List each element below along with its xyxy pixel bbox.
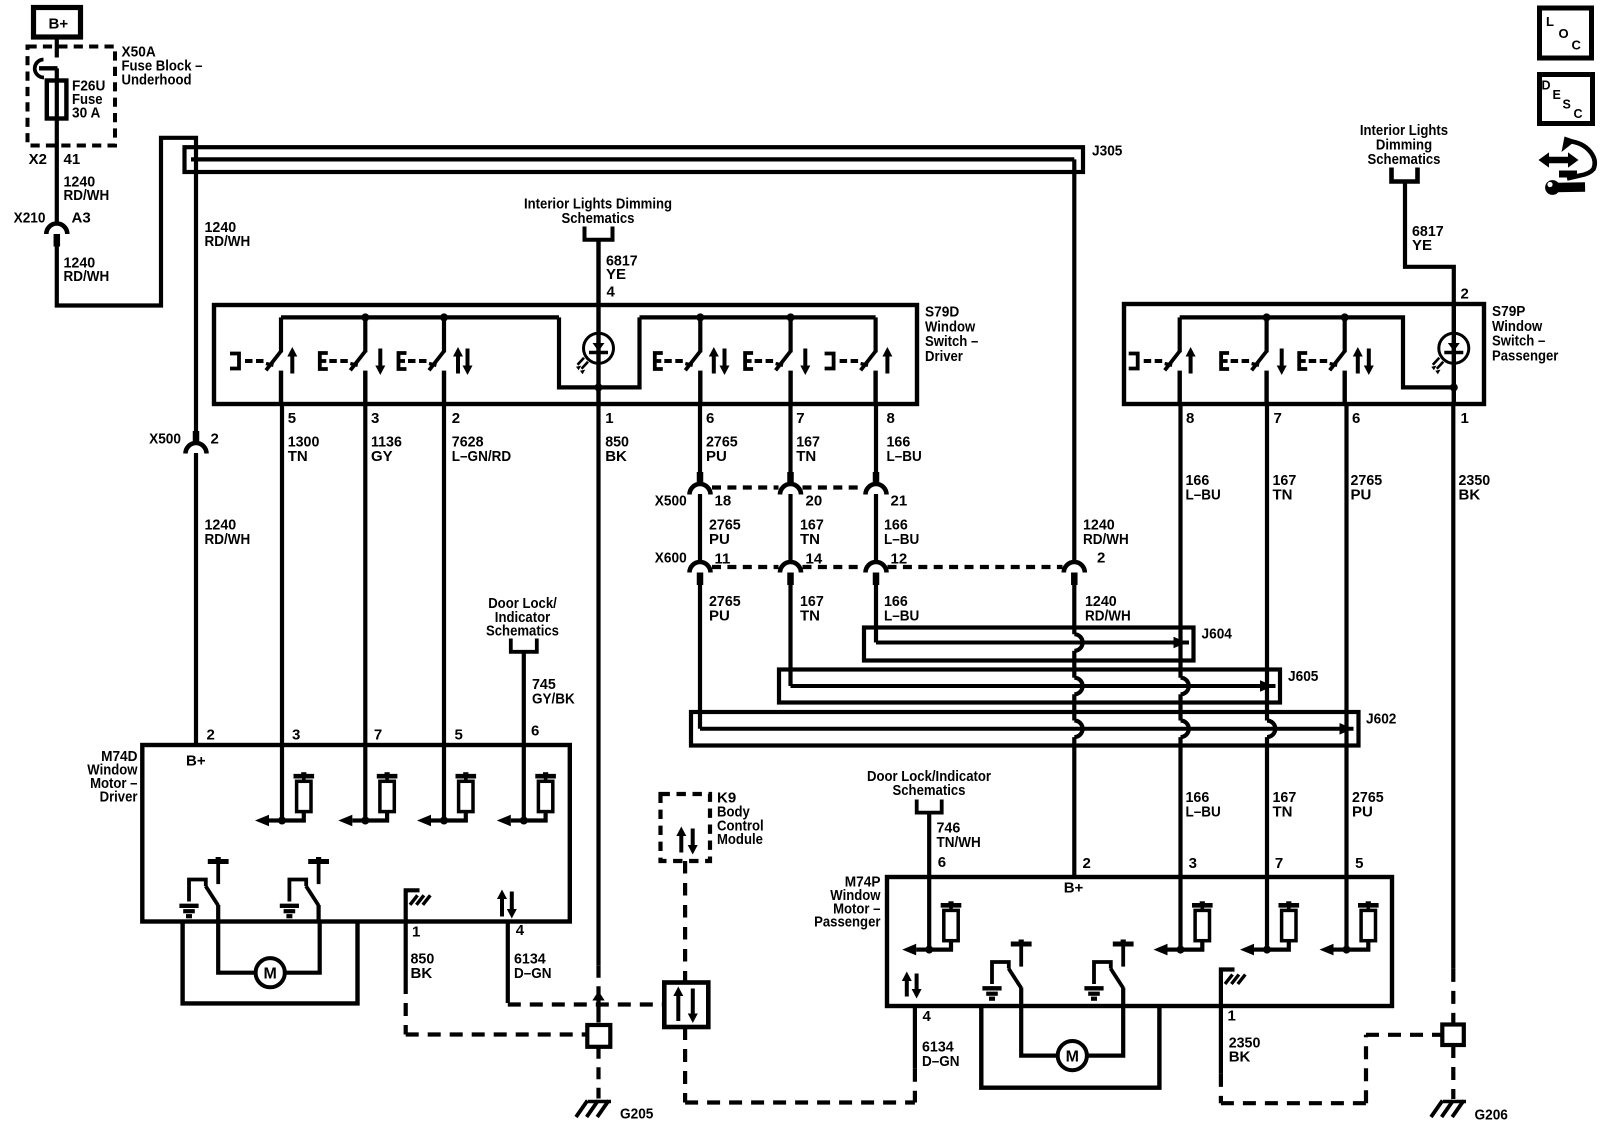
splice pack J602 outline: [691, 712, 1359, 746]
switch S79D window down sw (pin wire x=365.3): [320, 317, 386, 404]
svg-text:RD/WH: RD/WH: [205, 531, 251, 548]
M74D pin numbers: [207, 727, 463, 744]
M74P pin7 wire into box: [1265, 877, 1269, 950]
wire 2350 BK dashed to connector square: [1451, 969, 1455, 1025]
svg-text:11: 11: [715, 551, 731, 568]
svg-text:30 A: 30 A: [72, 105, 100, 122]
motor loop wire M74D: [183, 922, 358, 1004]
M74P pin4/pin1 numbers: [923, 1008, 1236, 1026]
label 850 BK (M74D pin1): [411, 951, 435, 982]
svg-text:J602: J602: [1366, 711, 1396, 728]
svg-text:RD/WH: RD/WH: [205, 233, 251, 250]
wire 6134 D-GN M74P pin4 (solid): [913, 1006, 917, 1069]
svg-text:TN: TN: [288, 448, 308, 465]
labels X500 terminal 2: [149, 431, 219, 448]
svg-text:7: 7: [796, 410, 804, 427]
S79D internal common bus: [281, 317, 876, 387]
label 746 TN/WH: [937, 820, 981, 851]
resistor M74P pin5 input network: [1320, 901, 1379, 955]
up/down arrows K9: [676, 827, 697, 855]
svg-text:YE: YE: [606, 266, 626, 283]
wire 2765 PU X500-18 to X600-11: [698, 494, 702, 562]
svg-text:5: 5: [1355, 855, 1363, 872]
label X50A Fuse Block - Underhood: [122, 44, 203, 89]
wire 746 TN/WH to M74P pin6: [927, 813, 931, 877]
wire 166 L-BU S79P pin8 to M74P pin3 (with hops): [1181, 404, 1189, 877]
wire 850 BK M74D pin1 dashed to ground connector: [406, 981, 586, 1035]
wire 1240 RD/WH X210 down and over to J305 riser: [57, 138, 196, 432]
svg-text:X210: X210: [14, 210, 46, 227]
wire 850 BK S79D pin1 down (solid): [596, 404, 600, 966]
svg-text:L–GN/RD: L–GN/RD: [452, 448, 511, 465]
dashed wire BCM connector to M74P pin4 run: [685, 1027, 915, 1103]
junction S79P bus at x=1266.6: [1263, 313, 1271, 321]
relay switch M74D motor up: [179, 857, 228, 922]
label K9 Body Control Module: [717, 790, 764, 849]
svg-text:L–BU: L–BU: [1186, 803, 1221, 820]
wire 1136 GY S79D pin3 to M74D pin7: [363, 404, 367, 745]
svg-text:L: L: [1546, 14, 1554, 29]
M74P pin6 wire into box: [927, 877, 931, 950]
ground elbow M74P pin1 internal: [1221, 970, 1245, 1007]
splice pack J602 internal conductor: [700, 727, 1354, 731]
inline connector square (G205 feed): [587, 1025, 610, 1047]
wire 167 TN X500-20 to X600-14: [788, 494, 792, 562]
wire 6134 D-GN M74P pin4 dashed: [913, 1069, 917, 1103]
label 166 L-BU (below X600): [884, 593, 919, 624]
wire 1300 TN S79D pin5 to M74D pin3: [280, 404, 284, 745]
label 1240 RD/WH (above X600-2): [1083, 517, 1129, 548]
svg-text:7: 7: [1275, 855, 1283, 872]
svg-text:4: 4: [516, 922, 525, 939]
junction S79D LED to common bus: [595, 383, 603, 391]
icon LOC box: [1540, 8, 1592, 58]
splice pack J604 internal conductor: [876, 641, 1189, 645]
label 166 L-BU (mid): [884, 517, 919, 548]
label M74P Window Motor - Passenger: [814, 874, 881, 931]
svg-text:J604: J604: [1202, 626, 1233, 643]
junction S79D bus at x=700.3: [696, 313, 704, 321]
relay switch M74P motor down: [1084, 940, 1133, 1007]
ground G205 symbol: [576, 1101, 611, 1118]
label 6134 D-GN (M74P pin4): [922, 1039, 960, 1070]
ground elbow M74D pin1 internal: [406, 890, 431, 921]
wire S79P pin2 through LED to pin 1: [1452, 305, 1456, 404]
wire 850 BK dashed above junction: [596, 966, 600, 994]
S79P pin numbers: [1186, 410, 1469, 427]
svg-text:21: 21: [891, 493, 908, 510]
label 166 L-BU (S79P pin8): [1186, 472, 1221, 503]
svg-text:RD/WH: RD/WH: [1083, 531, 1129, 548]
wire hook to fuse F26U: [55, 68, 59, 81]
junction S79P LED to common bus: [1450, 383, 1458, 391]
inline connector box with up/down arrows (BCM): [664, 983, 708, 1028]
M74D pin5 wire into box: [442, 745, 446, 821]
svg-text:3: 3: [1189, 855, 1197, 872]
svg-text:L–BU: L–BU: [887, 448, 922, 465]
label 2765 PU (mid): [709, 517, 741, 548]
svg-text:S: S: [1563, 98, 1571, 112]
motor assembly M74D box: [142, 745, 570, 922]
off-page reference Interior Lights Dimming Schematics (driver): [524, 196, 672, 240]
off-page reference Door Lock/Indicator Schematics (driver): [486, 595, 559, 652]
resistor M74D pin5 input network: [417, 772, 476, 826]
svg-text:G205: G205: [620, 1106, 653, 1123]
svg-text:6: 6: [938, 854, 946, 871]
svg-text:2: 2: [452, 410, 460, 427]
junction S79D bus at x=790.6: [787, 313, 795, 321]
wire 2765 PU S79P pin6 to M74P pin5: [1344, 404, 1348, 877]
pin 4 label S79D: [607, 284, 616, 301]
pin 6 label M74D: [531, 723, 539, 740]
svg-text:5: 5: [288, 410, 296, 427]
svg-text:X600: X600: [655, 550, 687, 567]
resistor M74P pin3 input network: [1154, 901, 1213, 955]
bus-bar hook symbol in fuse block: [35, 60, 58, 78]
svg-text:BK: BK: [411, 965, 433, 982]
label 2765 PU (lower): [1352, 789, 1384, 820]
svg-text:X2: X2: [29, 151, 47, 168]
svg-text:G206: G206: [1475, 1107, 1508, 1124]
connector X2 terminal 41 labels: [29, 151, 81, 168]
svg-text:12: 12: [891, 551, 908, 568]
connector X500 terminal 21: [866, 472, 887, 495]
resistor M74D pin6 input network: [497, 772, 556, 826]
wire 1240 RD/WH X600-2 to M74P pin2 (with hops): [1074, 575, 1082, 877]
wire 167 TN S79D pin7 to X500-20: [788, 404, 792, 473]
label 6817 YE (passenger): [1412, 223, 1444, 254]
svg-text:BK: BK: [1229, 1049, 1251, 1066]
switch S79D pass down sw (pin wire x=790.6): [745, 317, 810, 404]
labels X500 row: [655, 493, 907, 510]
svg-text:TN: TN: [1273, 486, 1293, 503]
relay switch M74P motor up: [982, 940, 1031, 1007]
label B+ (M74D pin2): [186, 753, 206, 770]
wire 6817 YE to S79D pin 4: [596, 240, 600, 305]
svg-text:J305: J305: [1092, 143, 1122, 160]
svg-text:L–BU: L–BU: [884, 531, 919, 548]
svg-text:18: 18: [715, 493, 732, 510]
label 167 TN (mid): [800, 517, 824, 548]
wire 1240 RD/WH J305 to X600 (right drop): [1072, 159, 1076, 561]
label 850 BK: [605, 434, 629, 465]
connector X500 body dashed line: [712, 485, 864, 489]
resistor M74D pin3 input network: [255, 772, 314, 826]
ground G206 symbol: [1431, 1101, 1466, 1118]
svg-text:M: M: [1066, 1048, 1079, 1065]
wire S79D pin4 through LED to pin 1: [596, 305, 600, 404]
label 1240 RD/WH (fuse output): [64, 174, 110, 205]
svg-text:1: 1: [1461, 410, 1469, 427]
label 1136 GY: [371, 434, 402, 465]
svg-text:Driver: Driver: [100, 789, 138, 806]
connector X600 terminal 11: [690, 562, 711, 585]
label J605: [1288, 668, 1318, 685]
wire dashed square to G206: [1451, 1045, 1455, 1099]
connector X600 body dashed line: [712, 565, 1063, 569]
switch S79D window up sw (pin wire x=281): [230, 317, 297, 404]
fuse F26U body: [47, 81, 67, 119]
svg-text:GY: GY: [371, 448, 393, 465]
svg-text:2: 2: [1097, 550, 1105, 567]
up/down arrows M74D: [497, 890, 517, 919]
svg-text:YE: YE: [1412, 237, 1432, 254]
resistor M74P pin7 input network: [1240, 901, 1299, 955]
wire 2765 PU X600-11 into J602: [698, 575, 702, 729]
svg-text:J605: J605: [1288, 668, 1318, 685]
switch assembly S79P box: [1124, 304, 1484, 404]
direction arrow on 850 BK at junction: [592, 991, 604, 1011]
label 1240 RD/WH (below X500-2): [205, 517, 251, 548]
svg-text:Schematics: Schematics: [1368, 151, 1441, 168]
label 2350 BK (M74P pin1): [1229, 1034, 1261, 1065]
svg-text:4: 4: [923, 1008, 932, 1025]
svg-text:BK: BK: [605, 448, 627, 465]
svg-text:3: 3: [371, 410, 379, 427]
resistor M74D pin7 input network: [338, 772, 397, 826]
resistor M74P pin6 input network: [902, 901, 961, 955]
svg-text:GY/BK: GY/BK: [532, 690, 575, 707]
M74P pin numbers top: [1083, 855, 1364, 872]
wire 2350 BK S79P pin1 down (solid): [1451, 404, 1455, 969]
splice pack J605 outline: [779, 670, 1280, 703]
svg-text:PU: PU: [706, 448, 727, 465]
motor M M74P: [1021, 1006, 1123, 1070]
label B+ (M74P pin2): [1064, 880, 1084, 897]
wire 167 TN X600-14 into J605: [788, 575, 792, 686]
svg-text:RD/WH: RD/WH: [64, 187, 110, 204]
svg-text:TN: TN: [800, 531, 820, 548]
off-page reference Door Lock/Indicator Schematics (passenger): [867, 768, 991, 813]
label 7628 L-GN/RD: [452, 434, 511, 465]
splice pack J605 internal conductor: [791, 684, 1276, 688]
svg-text:Passenger: Passenger: [814, 914, 881, 931]
svg-text:Driver: Driver: [925, 348, 963, 365]
dashed wire K9 to connector box: [683, 861, 687, 983]
M74P pin3 wire into box: [1178, 877, 1182, 950]
svg-text:TN: TN: [1273, 803, 1293, 820]
label 167 TN (lower): [1273, 789, 1297, 820]
switch S79D express sw (pin wire x=444): [399, 317, 473, 404]
svg-text:7: 7: [374, 727, 382, 744]
relay switch M74D motor down: [280, 857, 329, 922]
svg-text:1: 1: [605, 410, 613, 427]
M74D pin1/pin4 numbers: [412, 922, 525, 941]
svg-text:A3: A3: [72, 210, 91, 227]
svg-text:6: 6: [1352, 410, 1360, 427]
label 2765 PU (S79P pin6): [1351, 472, 1383, 503]
splice pack J604 outline: [864, 628, 1194, 661]
label 745 GY/BK: [532, 676, 575, 707]
svg-text:C: C: [1572, 38, 1582, 53]
svg-text:M: M: [264, 966, 277, 983]
label M74D Window Motor - Driver: [87, 748, 137, 806]
wire 2350 BK M74P pin1 dashed to G206 connector: [1221, 1035, 1443, 1103]
icon navigation arrows: [1539, 137, 1595, 195]
svg-text:2: 2: [207, 727, 215, 744]
M74D pin6 wire into box: [522, 745, 526, 821]
splice pack J305 outline: [185, 147, 1084, 172]
wire 850 BK M74D pin1 (solid): [404, 922, 408, 982]
junction S79D bus at x=365.3: [361, 313, 369, 321]
svg-text:BK: BK: [1459, 486, 1481, 503]
wire 2350 BK M74P pin1 (solid): [1219, 1006, 1223, 1074]
module K9 dashed box: [661, 794, 711, 861]
label 166 L-BU (S79D pin8): [887, 434, 922, 465]
LED illumination S79P: [1431, 333, 1469, 374]
connector X600 terminal 12: [866, 562, 887, 585]
up/down arrows M74P: [902, 972, 922, 999]
svg-text:Schematics: Schematics: [893, 782, 966, 799]
wire 745 GY/BK to M74D pin6: [522, 652, 526, 745]
svg-text:1: 1: [1228, 1008, 1236, 1025]
svg-text:D–GN: D–GN: [922, 1053, 960, 1070]
icon DESC box: [1540, 75, 1593, 124]
wire dashed square to G205: [596, 1047, 600, 1099]
label 1300 TN: [288, 434, 320, 465]
label 2350 BK (S79P pin1): [1459, 472, 1491, 503]
svg-text:2: 2: [1461, 286, 1469, 303]
svg-text:RD/WH: RD/WH: [64, 268, 110, 285]
svg-text:Passenger: Passenger: [1492, 347, 1559, 364]
svg-text:8: 8: [887, 410, 895, 427]
switch S79D pass up sw (pin wire x=875.6): [825, 317, 893, 404]
svg-text:C: C: [1574, 107, 1583, 121]
splice pack J305 internal conductor: [191, 157, 1074, 161]
off-page reference Interior Lights Dimming Schematics (passenger): [1360, 122, 1448, 182]
wire 167 TN S79P pin7 to M74P pin7 (with hop): [1267, 404, 1275, 877]
power feed B+ battery symbol box: [34, 8, 81, 38]
label 1240 RD/WH (riser to S79D): [205, 219, 251, 250]
svg-text:B+: B+: [49, 16, 69, 33]
wire 6134 D-GN M74D pin4 (solid): [506, 922, 510, 991]
svg-text:4: 4: [607, 284, 616, 301]
M74P pin5 wire into box: [1344, 877, 1348, 950]
connector X500 terminal 20: [780, 472, 801, 495]
svg-text:3: 3: [292, 727, 300, 744]
wire through fuse down to X210: [55, 81, 59, 223]
fuse block X50A dashed outline: [28, 47, 116, 146]
svg-text:B+: B+: [1064, 880, 1084, 897]
svg-text:D–GN: D–GN: [514, 965, 552, 982]
switch assembly S79D box: [214, 305, 917, 404]
svg-text:TN: TN: [800, 607, 820, 624]
pin 6 label M74P: [938, 854, 946, 871]
svg-text:Schematics: Schematics: [486, 623, 559, 640]
label G206: [1475, 1107, 1508, 1124]
label S79D Window Switch - Driver: [925, 304, 978, 365]
J602 connection to 2765 PU passenger: [1340, 723, 1354, 735]
svg-text:14: 14: [806, 551, 823, 568]
label 1240 RD/WH (below X600-2): [1085, 593, 1131, 624]
junction S79P bus at x=1344.7: [1341, 313, 1349, 321]
wire 2765 PU S79D pin6 to X500-18: [698, 404, 702, 473]
svg-text:20: 20: [806, 493, 823, 510]
wire 1240 RD/WH X500-2 to M74D pin2: [194, 453, 198, 745]
svg-text:5: 5: [455, 727, 463, 744]
svg-text:Module: Module: [717, 831, 763, 848]
wire 6817 YE to S79P pin 2: [1405, 182, 1454, 306]
connector X600 terminal 14: [780, 562, 801, 585]
M74D pin7 wire into box: [363, 745, 367, 821]
label G205: [620, 1106, 653, 1123]
wire 850 BK dashed to ground connector square: [596, 1011, 600, 1026]
J604 connection to 166 L-BU passenger: [1174, 637, 1188, 649]
label 1240 RD/WH (below X210): [64, 255, 110, 286]
svg-text:O: O: [1559, 26, 1569, 41]
label J305: [1092, 143, 1122, 160]
wire 166 L-BU X500-21 to X600-12: [874, 494, 878, 562]
label 167 TN (below X600): [800, 593, 824, 624]
svg-text:41: 41: [64, 151, 81, 168]
label S79P Window Switch - Passenger: [1492, 303, 1559, 364]
svg-text:RD/WH: RD/WH: [1085, 607, 1131, 624]
inline connector square (G206 feed): [1442, 1025, 1464, 1046]
svg-text:D: D: [1542, 79, 1551, 93]
svg-text:PU: PU: [709, 607, 730, 624]
label 6134 D-GN (M74D pin4): [514, 951, 552, 982]
switch S79P express sw (pin wire x=1344.7): [1299, 317, 1374, 404]
svg-text:PU: PU: [709, 531, 730, 548]
switch S79P window down sw (pin wire x=1266.6): [1221, 317, 1287, 404]
label 6817 YE (driver): [606, 253, 638, 283]
LED illumination S79D: [576, 333, 614, 374]
M74D pin3 wire into box: [280, 745, 284, 821]
wire B+ into fuse block: [55, 37, 59, 58]
connector X210 A3 inline symbol: [46, 224, 67, 247]
connector X500 terminal 18: [690, 472, 711, 495]
label 167 TN (S79D pin7): [796, 434, 820, 465]
connector X500 terminal 2 (driver feed): [186, 431, 207, 454]
svg-text:TN/WH: TN/WH: [937, 834, 981, 851]
label J602: [1366, 711, 1396, 728]
wire 166 L-BU X600-12 into J604: [874, 575, 878, 643]
svg-text:2: 2: [1083, 855, 1091, 872]
labels X600 row: [655, 550, 1106, 568]
S79P internal common bus: [1180, 317, 1451, 387]
wire 6134 D-GN dashed to BCM connector: [508, 990, 664, 1005]
switch S79P window up sw (pin wire x=1179.7): [1129, 317, 1196, 404]
svg-text:L–BU: L–BU: [884, 607, 919, 624]
svg-text:PU: PU: [1351, 486, 1372, 503]
svg-text:8: 8: [1186, 410, 1194, 427]
motor M M74D: [218, 922, 320, 988]
svg-text:6: 6: [531, 723, 539, 740]
label F26U Fuse 30 A: [72, 78, 105, 122]
svg-text:7: 7: [1274, 410, 1282, 427]
wire 7628 L-GN/RD S79D pin2 to M74D pin5: [442, 404, 446, 745]
svg-text:Schematics: Schematics: [562, 210, 635, 227]
label J604: [1202, 626, 1233, 643]
motor assembly M74P box: [887, 877, 1392, 1006]
svg-text:X500: X500: [149, 431, 181, 448]
pin 2 label S79P: [1461, 286, 1469, 303]
svg-text:Underhood: Underhood: [122, 72, 192, 89]
svg-text:6: 6: [706, 410, 714, 427]
connector X600 terminal 2 (right): [1064, 562, 1085, 585]
label 2765 PU (S79D pin6): [706, 434, 738, 465]
S79D pin numbers: [288, 410, 895, 427]
label 167 TN (S79P pin7): [1273, 472, 1297, 503]
svg-text:1: 1: [412, 924, 420, 941]
label 2765 PU (below X600): [709, 593, 741, 624]
J605 connection to 167 TN passenger: [1260, 680, 1274, 692]
svg-text:2: 2: [211, 431, 219, 448]
svg-text:E: E: [1553, 88, 1561, 102]
label 166 L-BU (lower): [1186, 789, 1221, 820]
junction S79D bus at x=444: [440, 313, 448, 321]
svg-text:L–BU: L–BU: [1186, 486, 1221, 503]
